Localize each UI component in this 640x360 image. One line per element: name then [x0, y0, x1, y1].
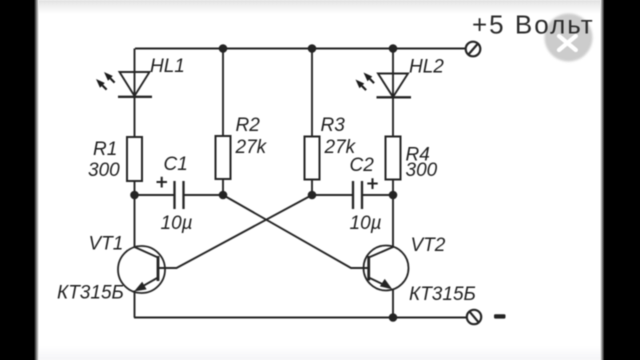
svg-text:C1: C1: [164, 154, 188, 175]
svg-text:КТ315Б: КТ315Б: [57, 283, 124, 304]
svg-text:27k: 27k: [235, 137, 268, 158]
svg-text:10µ: 10µ: [350, 213, 382, 234]
svg-text:R2: R2: [236, 115, 261, 136]
svg-text:VT1: VT1: [89, 234, 124, 255]
svg-text:HL2: HL2: [409, 57, 444, 78]
svg-text:10µ: 10µ: [161, 213, 193, 234]
svg-text:+5 Вольт: +5 Вольт: [472, 10, 595, 40]
svg-text:R1: R1: [93, 139, 117, 160]
svg-text:R3: R3: [321, 115, 346, 136]
svg-text:HL1: HL1: [150, 56, 185, 77]
svg-text:VT2: VT2: [411, 235, 446, 256]
svg-text:КТ315Б: КТ315Б: [409, 284, 476, 305]
svg-text:300: 300: [88, 160, 120, 181]
svg-text:C2: C2: [350, 155, 375, 176]
svg-text:300: 300: [406, 160, 438, 181]
